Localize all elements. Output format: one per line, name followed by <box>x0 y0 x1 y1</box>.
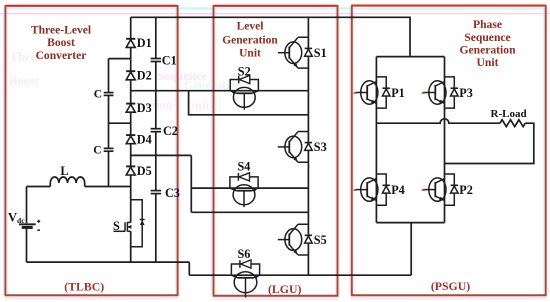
svg-text:C3: C3 <box>165 186 180 200</box>
mosfet S <box>114 222 132 232</box>
wire load return <box>445 123 534 163</box>
svg-text:D3: D3 <box>137 101 152 115</box>
wire S4 row <box>191 187 308 189</box>
diode D2 <box>126 71 135 80</box>
wire H-bridge left leg <box>375 57 377 223</box>
diode of S1 <box>305 48 313 56</box>
capacitor C lower-left <box>103 148 114 152</box>
transistor S3 <box>278 132 309 163</box>
transistor S2 <box>230 80 258 110</box>
diode of P3 <box>451 88 459 96</box>
wire H-bridge top <box>376 56 444 58</box>
svg-text:D5: D5 <box>137 164 152 178</box>
svg-text:Converter: Converter <box>36 49 87 62</box>
diode D1 <box>126 39 135 48</box>
PSGU box border <box>351 5 547 298</box>
wire riser row A to L1 <box>189 91 309 115</box>
capacitor C2 <box>150 128 162 132</box>
svg-text:Sequence: Sequence <box>464 31 510 44</box>
svg-text:P4: P4 <box>391 183 405 197</box>
wire D1-D2 junction <box>109 58 131 60</box>
svg-text:(PSGU): (PSGU) <box>431 279 470 293</box>
transistor P3 <box>422 77 455 108</box>
inductor L <box>50 177 84 187</box>
svg-text:S4: S4 <box>238 160 251 174</box>
wire LGU rail <box>307 17 309 275</box>
wire inductor row <box>27 186 131 188</box>
svg-text:P1: P1 <box>391 86 405 100</box>
diode of S4 <box>238 173 249 181</box>
wire left capacitor string <box>108 59 110 187</box>
LGU box border <box>213 5 339 298</box>
wire TLBC bottom rail <box>27 261 190 263</box>
wire step down to S6 row <box>188 262 190 275</box>
svg-text:S3: S3 <box>314 140 327 154</box>
svg-text:C: C <box>93 144 101 156</box>
svg-text:(LGU): (LGU) <box>268 282 301 296</box>
svg-text:S6: S6 <box>238 247 251 261</box>
diode D3 <box>126 104 135 113</box>
capacitor C3 <box>150 190 162 194</box>
diode of S5 <box>305 235 313 243</box>
diode of P1 <box>382 88 390 96</box>
transistor S1 <box>278 37 309 68</box>
svg-text:Phase: Phase <box>473 18 502 31</box>
svg-text:L: L <box>60 164 68 178</box>
wire riser D4-D5 row down <box>190 155 192 212</box>
svg-text:S2: S2 <box>238 64 251 78</box>
transistor P4 <box>354 174 387 205</box>
transistor S4 <box>230 177 258 207</box>
TLBC box border <box>5 5 179 298</box>
capacitor C upper-left <box>103 92 114 96</box>
diode of P2 <box>451 185 459 193</box>
svg-text:C: C <box>94 89 102 101</box>
svg-text:D4: D4 <box>137 133 152 147</box>
svg-text:S1: S1 <box>314 46 327 60</box>
svg-text:Generation: Generation <box>222 34 278 46</box>
transistor S6 <box>231 264 259 298</box>
wire H-bridge right leg <box>444 57 446 223</box>
battery Vdc <box>19 220 40 230</box>
diode of S2 <box>239 75 250 83</box>
svg-text:S5: S5 <box>314 233 327 247</box>
transistor S5 <box>278 224 309 255</box>
svg-text:Boost: Boost <box>47 36 75 49</box>
wire D4-D5 junction row <box>131 154 192 156</box>
transistor P1 <box>354 77 387 108</box>
svg-text:Vdc: Vdc <box>8 210 25 225</box>
title Three-Level Boost Converter <box>31 23 92 62</box>
svg-text:C1: C1 <box>162 54 177 68</box>
resistor R-Load zigzag <box>500 120 525 127</box>
svg-text:D1: D1 <box>137 36 152 50</box>
svg-text:Level: Level <box>237 21 264 33</box>
diode of S6 <box>240 260 251 268</box>
svg-text:S: S <box>113 219 120 233</box>
wire diode-string vertical <box>130 17 132 186</box>
wire load row with hop <box>376 119 500 123</box>
wire H-bridge bottom <box>376 222 444 224</box>
wire row A D2-D3 junction to LGU rail <box>131 90 309 92</box>
title Phase Sequence Generation Unit <box>459 18 516 69</box>
svg-text:R-Load: R-Load <box>491 108 527 120</box>
wire mosfet drain-source vertical <box>130 187 132 263</box>
wire right capacitor column <box>155 17 157 262</box>
svg-text:Boost: Boost <box>9 74 40 88</box>
svg-text:Unit: Unit <box>186 99 210 113</box>
svg-text:C2: C2 <box>163 124 178 138</box>
wire S6 row <box>189 274 411 276</box>
transistor P2 <box>422 174 455 205</box>
mosfet body diode <box>140 220 145 226</box>
wire H-bridge center tap down <box>410 223 412 276</box>
title Level Generation Unit <box>222 21 278 60</box>
diode D4 <box>126 135 135 144</box>
svg-text:Generation: Generation <box>459 43 516 56</box>
svg-text:D2: D2 <box>137 69 152 83</box>
svg-text:Unit: Unit <box>477 56 499 69</box>
wire L2 row <box>191 211 308 213</box>
diode of S3 <box>305 143 313 151</box>
wire top rail <box>131 17 410 56</box>
svg-text:P2: P2 <box>459 183 473 197</box>
svg-text:P3: P3 <box>459 86 473 100</box>
svg-text:(TLBC): (TLBC) <box>64 279 104 293</box>
wire battery vertical <box>26 187 28 263</box>
wire D3-D4 junction <box>109 122 131 124</box>
diode D5 <box>126 166 135 175</box>
capacitor C1 <box>150 58 162 62</box>
mosfet body-diode bracket <box>131 200 143 247</box>
svg-text:Three-Level: Three-Level <box>31 23 92 36</box>
svg-text:Unit: Unit <box>239 48 261 60</box>
diode of P4 <box>382 185 390 193</box>
